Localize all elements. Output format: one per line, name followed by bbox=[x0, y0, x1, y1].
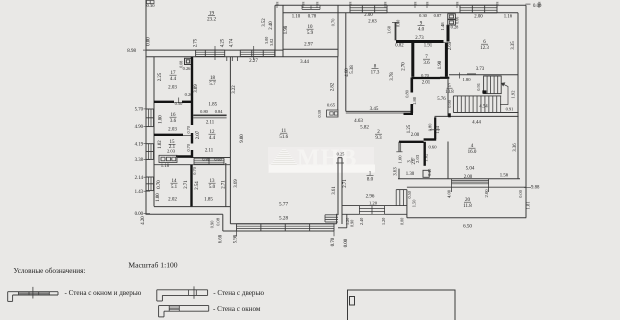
svg-text:9.00: 9.00 bbox=[240, 134, 245, 143]
svg-text:3.6: 3.6 bbox=[423, 61, 430, 66]
svg-text:8.0: 8.0 bbox=[367, 178, 374, 183]
svg-text:16.0: 16.0 bbox=[468, 150, 477, 155]
svg-text:0.08: 0.08 bbox=[179, 61, 184, 68]
svg-text:0.84: 0.84 bbox=[215, 109, 223, 114]
svg-text:1.54: 1.54 bbox=[435, 125, 440, 133]
svg-text:12.3: 12.3 bbox=[480, 46, 489, 51]
svg-text:0.70: 0.70 bbox=[186, 144, 191, 151]
svg-text:5.9: 5.9 bbox=[307, 31, 314, 36]
svg-text:2.11: 2.11 bbox=[205, 149, 214, 154]
svg-text:0.90: 0.90 bbox=[447, 99, 452, 107]
svg-text:2.71: 2.71 bbox=[184, 180, 189, 189]
svg-text:2.1: 2.1 bbox=[315, 1, 319, 6]
svg-text:0.30: 0.30 bbox=[146, 3, 155, 8]
svg-text:2.70: 2.70 bbox=[402, 62, 407, 71]
svg-text:3.35: 3.35 bbox=[511, 41, 516, 50]
svg-text:3.52: 3.52 bbox=[262, 18, 267, 27]
svg-text:0.00: 0.00 bbox=[533, 4, 542, 9]
svg-text:3.09: 3.09 bbox=[194, 84, 199, 93]
svg-text:3.69: 3.69 bbox=[234, 179, 239, 188]
svg-text:2.71: 2.71 bbox=[222, 180, 227, 189]
svg-text:2.71: 2.71 bbox=[343, 179, 348, 188]
svg-text:2.75: 2.75 bbox=[194, 38, 199, 47]
svg-text:2.03: 2.03 bbox=[168, 128, 177, 133]
svg-text:2.82: 2.82 bbox=[331, 82, 336, 91]
svg-text:2.1: 2.1 bbox=[455, 1, 459, 6]
svg-text:0.70: 0.70 bbox=[421, 73, 429, 78]
svg-text:2.00: 2.00 bbox=[474, 15, 483, 20]
svg-text:0.26: 0.26 bbox=[183, 66, 191, 71]
svg-text:0.78: 0.78 bbox=[308, 15, 317, 20]
svg-text:МНВ: МНВ bbox=[297, 146, 357, 172]
svg-text:1.48: 1.48 bbox=[440, 22, 445, 31]
svg-text:2.00: 2.00 bbox=[364, 13, 373, 18]
svg-text:0.90: 0.90 bbox=[350, 220, 355, 227]
svg-text:1.20: 1.20 bbox=[381, 218, 386, 225]
svg-text:5.76: 5.76 bbox=[437, 97, 446, 102]
svg-text:1.91: 1.91 bbox=[424, 44, 433, 49]
svg-text:0.80: 0.80 bbox=[405, 89, 410, 97]
svg-text:8.98: 8.98 bbox=[127, 49, 136, 54]
svg-text:1.20: 1.20 bbox=[369, 200, 378, 205]
svg-text:0.08: 0.08 bbox=[216, 217, 221, 225]
svg-text:2.07: 2.07 bbox=[196, 130, 201, 139]
svg-text:5.04: 5.04 bbox=[466, 166, 475, 171]
svg-text:1.00: 1.00 bbox=[398, 155, 403, 164]
svg-text:6.50: 6.50 bbox=[463, 224, 472, 229]
svg-text:10.8: 10.8 bbox=[445, 90, 454, 95]
svg-text:0.70: 0.70 bbox=[186, 126, 191, 133]
svg-text:3.38: 3.38 bbox=[135, 158, 144, 163]
svg-text:5.7: 5.7 bbox=[209, 82, 216, 87]
svg-text:3.36: 3.36 bbox=[513, 143, 518, 152]
svg-text:2.63: 2.63 bbox=[368, 19, 377, 24]
svg-text:0.82: 0.82 bbox=[395, 44, 404, 49]
svg-text:0.91: 0.91 bbox=[506, 106, 514, 111]
svg-text:2.69: 2.69 bbox=[448, 41, 453, 50]
svg-text:4.20: 4.20 bbox=[141, 216, 146, 225]
svg-text:0.30: 0.30 bbox=[419, 13, 427, 18]
svg-text:0.60: 0.60 bbox=[428, 145, 437, 150]
svg-text:4.00: 4.00 bbox=[446, 189, 451, 198]
svg-text:- Стена с окном: - Стена с окном bbox=[213, 305, 261, 313]
svg-text:1.80: 1.80 bbox=[412, 96, 417, 105]
svg-text:0.80: 0.80 bbox=[428, 123, 433, 131]
svg-text:3.22: 3.22 bbox=[232, 85, 237, 94]
svg-text:1.80: 1.80 bbox=[462, 77, 471, 82]
svg-text:0.90: 0.90 bbox=[210, 220, 215, 228]
svg-text:1.00: 1.00 bbox=[156, 193, 161, 202]
svg-text:5.98: 5.98 bbox=[234, 234, 239, 243]
svg-text:0.40: 0.40 bbox=[427, 169, 432, 176]
svg-text:2.1: 2.1 bbox=[301, 1, 305, 6]
svg-text:2.14: 2.14 bbox=[135, 176, 144, 181]
svg-text:3.45: 3.45 bbox=[370, 107, 379, 112]
svg-text:0.70: 0.70 bbox=[331, 237, 336, 246]
svg-text:2.03: 2.03 bbox=[415, 154, 420, 163]
svg-text:0.87: 0.87 bbox=[434, 13, 442, 18]
svg-text:0.00: 0.00 bbox=[400, 218, 405, 225]
svg-text:2.73: 2.73 bbox=[415, 36, 424, 41]
svg-text:3.63: 3.63 bbox=[394, 167, 399, 176]
svg-text:4.44: 4.44 bbox=[472, 120, 481, 125]
svg-text:2.00: 2.00 bbox=[484, 189, 489, 198]
svg-text:1.90: 1.90 bbox=[438, 60, 443, 69]
svg-text:2.02: 2.02 bbox=[168, 198, 177, 203]
svg-text:2.03: 2.03 bbox=[168, 86, 177, 91]
svg-text:1.85: 1.85 bbox=[208, 102, 217, 107]
svg-text:1.02: 1.02 bbox=[158, 140, 163, 149]
svg-text:5.82: 5.82 bbox=[360, 125, 369, 130]
svg-text:0.60: 0.60 bbox=[214, 157, 221, 162]
svg-text:9.88: 9.88 bbox=[531, 185, 540, 190]
svg-text:5.70: 5.70 bbox=[135, 108, 144, 113]
svg-text:2.27: 2.27 bbox=[249, 59, 258, 64]
svg-text:5.1: 5.1 bbox=[171, 185, 178, 190]
svg-text:1.85: 1.85 bbox=[204, 198, 213, 203]
svg-text:3.44: 3.44 bbox=[300, 60, 309, 65]
svg-text:2.1: 2.1 bbox=[383, 1, 387, 6]
svg-text:51.6: 51.6 bbox=[279, 135, 288, 140]
svg-text:23.2: 23.2 bbox=[207, 16, 216, 22]
svg-text:0.00: 0.00 bbox=[147, 37, 152, 46]
svg-text:5.0: 5.0 bbox=[209, 185, 216, 190]
svg-text:0.70: 0.70 bbox=[192, 166, 197, 174]
svg-text:1.16: 1.16 bbox=[504, 15, 513, 20]
svg-text:1.62: 1.62 bbox=[423, 153, 428, 162]
svg-text:0.65: 0.65 bbox=[327, 103, 336, 108]
svg-text:1.25: 1.25 bbox=[407, 124, 412, 133]
svg-text:2.01: 2.01 bbox=[422, 80, 431, 85]
svg-text:4.0: 4.0 bbox=[418, 28, 425, 33]
svg-text:2.00: 2.00 bbox=[411, 133, 420, 138]
svg-text:3.73: 3.73 bbox=[476, 67, 485, 72]
svg-text:2.03: 2.03 bbox=[167, 149, 176, 154]
svg-text:6.68: 6.68 bbox=[219, 234, 224, 243]
svg-text:4.19: 4.19 bbox=[135, 142, 144, 147]
svg-text:2.97: 2.97 bbox=[304, 43, 313, 48]
svg-text:4.4: 4.4 bbox=[209, 136, 216, 141]
svg-text:1.60: 1.60 bbox=[387, 25, 392, 34]
svg-text:1.80: 1.80 bbox=[159, 115, 164, 124]
svg-text:3.6: 3.6 bbox=[170, 119, 177, 124]
svg-text:Масштаб 1:100: Масштаб 1:100 bbox=[128, 261, 177, 270]
svg-text:Условные обозначения:: Условные обозначения: bbox=[14, 267, 86, 275]
svg-text:2.54: 2.54 bbox=[195, 181, 200, 190]
svg-text:0.25: 0.25 bbox=[337, 152, 345, 157]
svg-text:2.40: 2.40 bbox=[269, 21, 274, 30]
svg-text:1.10: 1.10 bbox=[292, 15, 301, 20]
svg-text:11.8: 11.8 bbox=[463, 204, 472, 209]
svg-text:3.02: 3.02 bbox=[269, 39, 274, 46]
svg-text:1.30: 1.30 bbox=[406, 172, 415, 177]
svg-text:0.60: 0.60 bbox=[396, 20, 401, 27]
svg-text:0.80: 0.80 bbox=[200, 109, 208, 114]
svg-text:0.70: 0.70 bbox=[157, 180, 162, 189]
svg-text:5.77: 5.77 bbox=[279, 202, 288, 208]
svg-text:9.3: 9.3 bbox=[375, 136, 382, 141]
svg-text:4.63: 4.63 bbox=[354, 119, 363, 124]
svg-text:0.70: 0.70 bbox=[331, 18, 336, 26]
svg-text:3.61: 3.61 bbox=[332, 186, 337, 195]
svg-text:0.39: 0.39 bbox=[317, 110, 322, 117]
svg-text:17.3: 17.3 bbox=[371, 70, 380, 75]
svg-text:5.28: 5.28 bbox=[279, 216, 288, 222]
svg-text:4.4: 4.4 bbox=[170, 77, 177, 82]
svg-text:0.91: 0.91 bbox=[476, 83, 481, 91]
svg-text:2.1: 2.1 bbox=[275, 1, 279, 6]
svg-text:0.28: 0.28 bbox=[451, 25, 459, 30]
svg-text:0.00: 0.00 bbox=[518, 189, 523, 197]
svg-text:2.40: 2.40 bbox=[359, 218, 364, 225]
svg-text:4.74: 4.74 bbox=[230, 38, 235, 47]
svg-text:3.78: 3.78 bbox=[390, 72, 395, 81]
svg-text:0.80: 0.80 bbox=[202, 157, 209, 162]
svg-text:2.25: 2.25 bbox=[158, 72, 163, 81]
svg-text:1.50: 1.50 bbox=[412, 199, 417, 207]
svg-text:2.1: 2.1 bbox=[348, 1, 352, 6]
svg-text:0.00: 0.00 bbox=[344, 238, 349, 247]
svg-text:4.90: 4.90 bbox=[135, 125, 144, 130]
svg-text:1.92: 1.92 bbox=[511, 90, 516, 99]
svg-text:0.50: 0.50 bbox=[407, 191, 412, 198]
svg-text:2.1: 2.1 bbox=[425, 1, 429, 6]
svg-text:0.50: 0.50 bbox=[175, 101, 183, 106]
svg-text:1.56: 1.56 bbox=[500, 173, 509, 178]
svg-text:5.38: 5.38 bbox=[350, 65, 355, 74]
svg-text:2.1: 2.1 bbox=[495, 1, 499, 6]
svg-text:1.98: 1.98 bbox=[284, 25, 289, 34]
svg-text:- Стена с окном и дверью: - Стена с окном и дверью bbox=[65, 289, 143, 297]
svg-text:4.60: 4.60 bbox=[345, 68, 350, 77]
svg-text:0.66: 0.66 bbox=[455, 17, 460, 24]
svg-text:- Стена с дверью: - Стена с дверью bbox=[213, 289, 265, 297]
svg-text:4.54: 4.54 bbox=[479, 105, 488, 110]
svg-text:1.43: 1.43 bbox=[135, 190, 144, 195]
svg-text:2.11: 2.11 bbox=[206, 121, 215, 126]
svg-text:1.81: 1.81 bbox=[526, 201, 531, 210]
svg-text:4.25: 4.25 bbox=[221, 38, 226, 47]
svg-text:2.96: 2.96 bbox=[366, 195, 375, 200]
svg-text:2.1: 2.1 bbox=[413, 1, 417, 6]
